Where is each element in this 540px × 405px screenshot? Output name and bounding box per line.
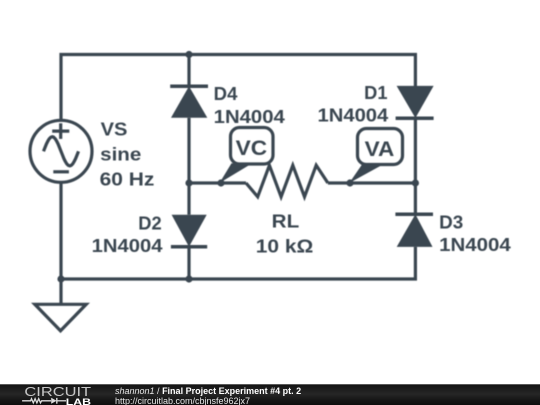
footer text: [115, 386, 301, 405]
svg-text:60 Hz: 60 Hz: [100, 169, 155, 189]
node dot mid right: [412, 179, 419, 186]
svg-text:1N4004: 1N4004: [439, 235, 511, 255]
wire D2 branch: [187, 183, 190, 215]
svg-text:D1: D1: [364, 83, 387, 103]
diode D2: [171, 215, 207, 247]
node dot bottom left: [57, 275, 64, 282]
resistor RL: [246, 165, 328, 197]
svg-text:VC: VC: [236, 137, 268, 160]
node dot top D4: [185, 51, 192, 58]
CircuitLab logo: [0, 385, 100, 405]
wire left rail lower: [59, 182, 62, 279]
probe VA: [349, 129, 402, 184]
wire bottom rail: [61, 247, 415, 279]
svg-text:LAB: LAB: [66, 397, 91, 405]
svg-text:sine: sine: [100, 144, 141, 164]
svg-text:D3: D3: [439, 213, 463, 233]
wire D4 to mid node: [187, 118, 190, 183]
diode D4: [170, 86, 208, 117]
wire D2 to bottom: [187, 247, 190, 279]
node dot VC probe: [217, 179, 224, 186]
node dot VA probe: [346, 179, 353, 186]
diode D1: [396, 86, 434, 118]
svg-text:1N4004: 1N4004: [318, 105, 389, 125]
footer bar: [0, 384, 540, 405]
diode D3: [395, 214, 433, 247]
wire mid right segment: [328, 181, 416, 184]
probe VC: [220, 128, 274, 184]
svg-text:1N4004: 1N4004: [214, 107, 285, 127]
svg-text:RL: RL: [272, 212, 300, 232]
svg-text:VS: VS: [101, 119, 128, 139]
voltage source VS: [30, 120, 92, 182]
node dot bottom D2: [185, 275, 192, 282]
wire mid left segment: [189, 181, 246, 184]
svg-text:VA: VA: [365, 138, 395, 161]
ground: [35, 279, 86, 331]
node dot mid left: [185, 179, 192, 186]
svg-text:1N4004: 1N4004: [92, 236, 163, 256]
svg-text:D2: D2: [138, 213, 161, 233]
svg-text:D4: D4: [214, 84, 238, 104]
wire D4 branch: [187, 55, 190, 87]
svg-text:10 kΩ: 10 kΩ: [256, 237, 313, 257]
wire top rail: [61, 55, 415, 121]
wire right rail D1 to mid: [414, 118, 417, 214]
